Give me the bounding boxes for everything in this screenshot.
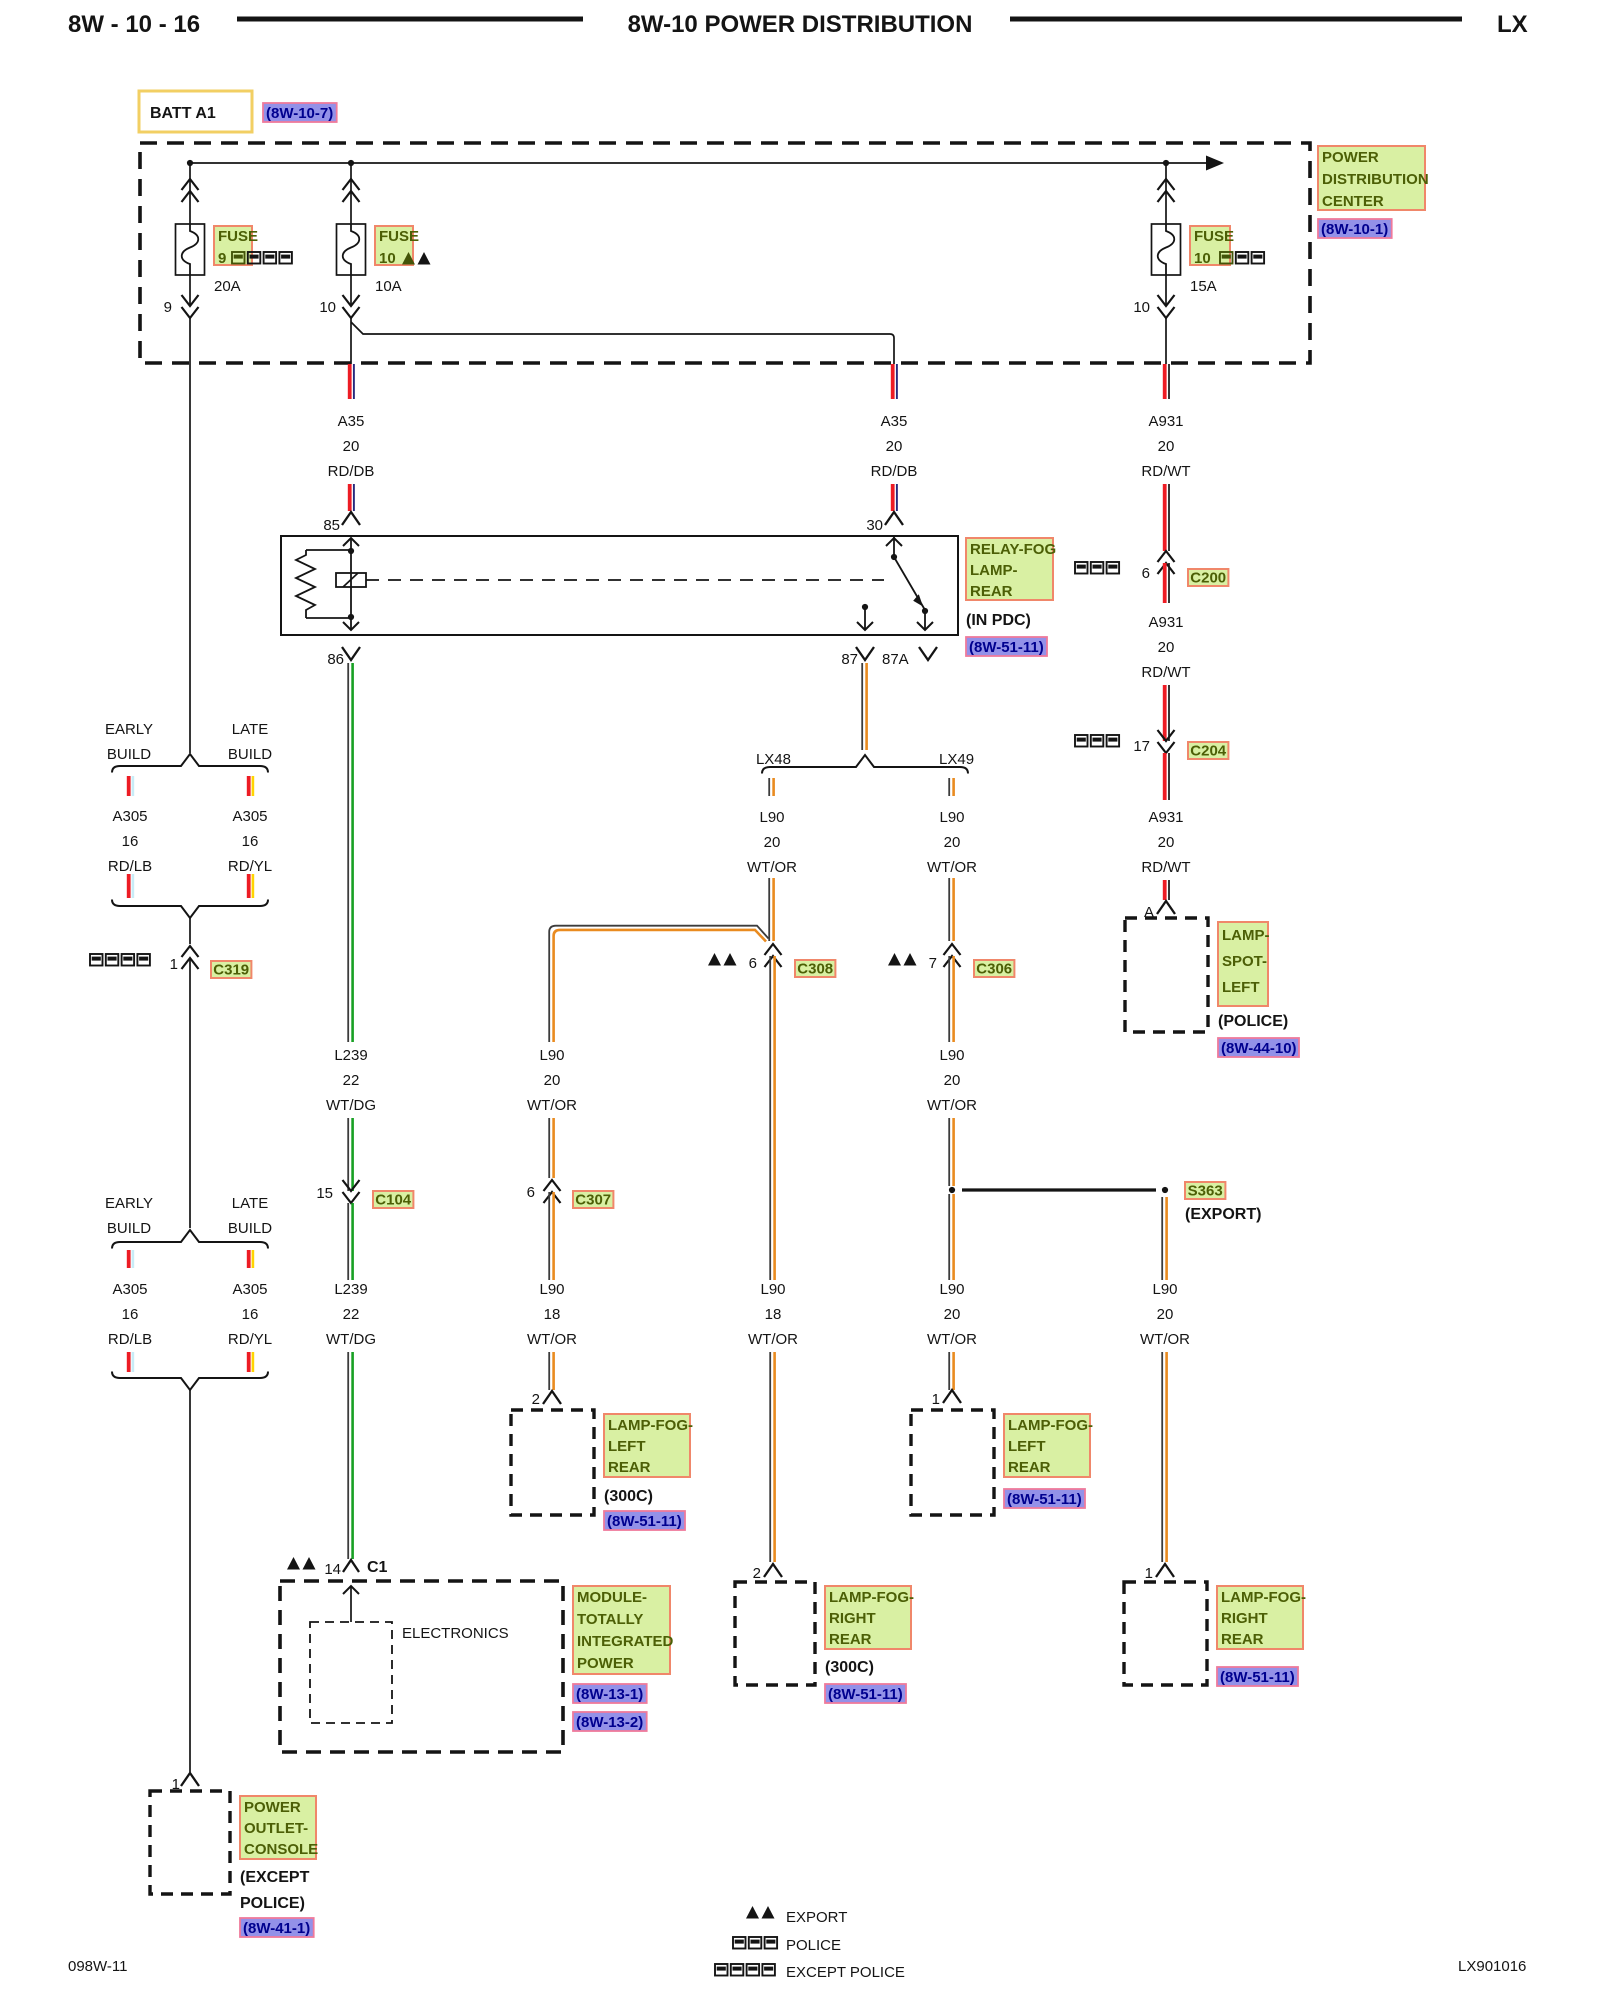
svg-text:8W - 10 - 16: 8W - 10 - 16	[68, 11, 200, 38]
svg-text:EARLY: EARLY	[105, 721, 153, 738]
svg-text:RD/YL: RD/YL	[228, 1331, 272, 1348]
svg-text:L90: L90	[939, 1281, 964, 1298]
svg-text:A305: A305	[112, 808, 147, 825]
svg-text:(8W-51-11): (8W-51-11)	[1007, 1491, 1082, 1508]
svg-text:POLICE): POLICE)	[240, 1895, 305, 1912]
svg-text:C204: C204	[1190, 743, 1227, 760]
svg-text:(8W-41-1): (8W-41-1)	[243, 1920, 310, 1937]
svg-text:WT/OR: WT/OR	[748, 1331, 798, 1348]
svg-text:C1: C1	[367, 1559, 388, 1576]
svg-text:RIGHT: RIGHT	[1221, 1610, 1268, 1627]
svg-text:(8W-51-11): (8W-51-11)	[969, 639, 1044, 656]
svg-text:C308: C308	[797, 961, 833, 978]
svg-text:22: 22	[343, 1306, 360, 1323]
svg-text:LAMP-FOG-: LAMP-FOG-	[829, 1589, 914, 1606]
svg-text:L90: L90	[1152, 1281, 1177, 1298]
svg-text:(EXCEPT: (EXCEPT	[240, 1869, 310, 1886]
svg-text:BUILD: BUILD	[107, 746, 151, 763]
svg-text:LEFT: LEFT	[608, 1438, 646, 1455]
svg-text:WT/OR: WT/OR	[927, 859, 977, 876]
svg-text:LX48: LX48	[756, 751, 791, 768]
svg-text:BUILD: BUILD	[228, 1220, 272, 1237]
svg-text:A931: A931	[1148, 809, 1183, 826]
svg-text:BUILD: BUILD	[228, 746, 272, 763]
svg-text:(8W-51-11): (8W-51-11)	[607, 1513, 682, 1530]
svg-text:1: 1	[932, 1391, 940, 1408]
svg-text:30: 30	[866, 517, 883, 534]
svg-text:15: 15	[316, 1185, 333, 1202]
svg-text:LAMP-FOG-: LAMP-FOG-	[1008, 1417, 1093, 1434]
svg-text:FUSE: FUSE	[379, 228, 419, 245]
svg-text:C307: C307	[575, 1192, 611, 1209]
svg-text:TOTALLY: TOTALLY	[577, 1611, 643, 1628]
svg-text:RD/DB: RD/DB	[871, 463, 918, 480]
svg-text:LAMP-: LAMP-	[970, 562, 1018, 579]
svg-text:6: 6	[527, 1184, 535, 1201]
svg-text:S363: S363	[1188, 1183, 1223, 1200]
svg-text:18: 18	[544, 1306, 561, 1323]
svg-text:LAMP-: LAMP-	[1222, 927, 1270, 944]
svg-text:RD/WT: RD/WT	[1141, 463, 1190, 480]
svg-text:LX: LX	[1497, 11, 1528, 38]
svg-text:20: 20	[544, 1072, 561, 1089]
svg-text:10: 10	[1133, 299, 1150, 316]
svg-text:OUTLET-: OUTLET-	[244, 1820, 308, 1837]
svg-text:(8W-10-1): (8W-10-1)	[1321, 221, 1388, 238]
svg-text:RELAY-FOG: RELAY-FOG	[970, 541, 1056, 558]
svg-text:8W-10 POWER DISTRIBUTION: 8W-10 POWER DISTRIBUTION	[628, 11, 973, 38]
svg-text:LX49: LX49	[939, 751, 974, 768]
svg-text:(EXPORT): (EXPORT)	[1185, 1206, 1261, 1223]
svg-text:(8W-51-11): (8W-51-11)	[1220, 1669, 1295, 1686]
svg-text:WT/OR: WT/OR	[747, 859, 797, 876]
svg-text:SPOT-: SPOT-	[1222, 953, 1267, 970]
svg-text:(8W-10-7): (8W-10-7)	[266, 105, 333, 122]
svg-text:18: 18	[765, 1306, 782, 1323]
svg-text:WT/OR: WT/OR	[527, 1097, 577, 1114]
svg-text:LAMP-FOG-: LAMP-FOG-	[1221, 1589, 1306, 1606]
svg-text:(300C): (300C)	[604, 1488, 653, 1505]
svg-text:WT/OR: WT/OR	[927, 1331, 977, 1348]
svg-text:6: 6	[749, 955, 757, 972]
svg-text:POLICE: POLICE	[786, 1937, 841, 1954]
svg-text:(300C): (300C)	[825, 1659, 874, 1676]
svg-text:C200: C200	[1190, 570, 1226, 587]
svg-text:10A: 10A	[375, 278, 402, 295]
svg-text:A35: A35	[881, 413, 908, 430]
svg-text:22: 22	[343, 1072, 360, 1089]
svg-text:86: 86	[327, 651, 344, 668]
svg-text:17: 17	[1133, 738, 1150, 755]
svg-text:LATE: LATE	[232, 721, 268, 738]
svg-text:16: 16	[122, 1306, 139, 1323]
svg-text:CONSOLE: CONSOLE	[244, 1841, 318, 1858]
svg-text:RD/DB: RD/DB	[328, 463, 375, 480]
svg-text:2: 2	[532, 1391, 540, 1408]
svg-text:REAR: REAR	[1008, 1459, 1051, 1476]
svg-text:A305: A305	[232, 1281, 267, 1298]
svg-text:A931: A931	[1148, 413, 1183, 430]
svg-text:LATE: LATE	[232, 1195, 268, 1212]
svg-text:(8W-51-11): (8W-51-11)	[828, 1686, 903, 1703]
svg-text:FUSE: FUSE	[218, 228, 258, 245]
svg-text:LEFT: LEFT	[1008, 1438, 1046, 1455]
svg-text:RD/WT: RD/WT	[1141, 859, 1190, 876]
svg-text:20: 20	[944, 1072, 961, 1089]
svg-text:WT/DG: WT/DG	[326, 1097, 376, 1114]
svg-text:INTEGRATED: INTEGRATED	[577, 1633, 674, 1650]
svg-text:10: 10	[1194, 250, 1211, 267]
svg-text:87: 87	[841, 651, 858, 668]
svg-text:L90: L90	[760, 1281, 785, 1298]
svg-text:L239: L239	[334, 1281, 367, 1298]
svg-text:BUILD: BUILD	[107, 1220, 151, 1237]
svg-text:(8W-13-2): (8W-13-2)	[576, 1714, 643, 1731]
svg-text:(POLICE): (POLICE)	[1218, 1013, 1288, 1030]
svg-text:EXCEPT POLICE: EXCEPT POLICE	[786, 1964, 905, 1981]
svg-text:(IN PDC): (IN PDC)	[966, 612, 1031, 629]
svg-text:POWER: POWER	[577, 1655, 634, 1672]
svg-text:6: 6	[1142, 565, 1150, 582]
svg-text:C319: C319	[213, 962, 249, 979]
svg-text:A35: A35	[338, 413, 365, 430]
svg-text:LX901016: LX901016	[1458, 1958, 1526, 1975]
svg-text:16: 16	[242, 833, 259, 850]
svg-text:WT/OR: WT/OR	[927, 1097, 977, 1114]
svg-text:85: 85	[323, 517, 340, 534]
svg-text:16: 16	[242, 1306, 259, 1323]
svg-text:RD/YL: RD/YL	[228, 858, 272, 875]
svg-text:ELECTRONICS: ELECTRONICS	[402, 1625, 509, 1642]
svg-text:L90: L90	[759, 809, 784, 826]
svg-text:A931: A931	[1148, 614, 1183, 631]
svg-text:20: 20	[1158, 834, 1175, 851]
svg-text:EARLY: EARLY	[105, 1195, 153, 1212]
svg-text:WT/OR: WT/OR	[527, 1331, 577, 1348]
svg-text:20A: 20A	[214, 278, 241, 295]
svg-text:1: 1	[170, 956, 178, 973]
svg-text:L90: L90	[539, 1281, 564, 1298]
svg-text:L90: L90	[539, 1047, 564, 1064]
svg-text:10: 10	[379, 250, 396, 267]
svg-text:20: 20	[1157, 1306, 1174, 1323]
svg-text:A305: A305	[112, 1281, 147, 1298]
svg-text:BATT A1: BATT A1	[150, 105, 216, 122]
svg-text:POWER: POWER	[244, 1799, 301, 1816]
svg-text:(8W-44-10): (8W-44-10)	[1221, 1040, 1297, 1057]
svg-text:20: 20	[944, 834, 961, 851]
svg-text:10: 10	[319, 299, 336, 316]
svg-text:14: 14	[324, 1561, 341, 1578]
svg-text:WT/OR: WT/OR	[1140, 1331, 1190, 1348]
svg-text:RIGHT: RIGHT	[829, 1610, 876, 1627]
svg-text:20: 20	[1158, 438, 1175, 455]
svg-text:RD/LB: RD/LB	[108, 1331, 152, 1348]
svg-text:20: 20	[764, 834, 781, 851]
svg-text:9: 9	[218, 250, 226, 267]
svg-text:C306: C306	[976, 961, 1012, 978]
svg-text:20: 20	[1158, 639, 1175, 656]
svg-text:MODULE-: MODULE-	[577, 1589, 647, 1606]
svg-text:20: 20	[343, 438, 360, 455]
svg-text:A305: A305	[232, 808, 267, 825]
svg-text:EXPORT: EXPORT	[786, 1909, 847, 1926]
svg-text:C104: C104	[375, 1192, 412, 1209]
svg-text:DISTRIBUTION: DISTRIBUTION	[1322, 171, 1429, 188]
svg-text:L90: L90	[939, 1047, 964, 1064]
svg-text:9: 9	[164, 299, 172, 316]
svg-text:RD/WT: RD/WT	[1141, 664, 1190, 681]
svg-text:POWER: POWER	[1322, 149, 1379, 166]
svg-text:L239: L239	[334, 1047, 367, 1064]
svg-text:FUSE: FUSE	[1194, 228, 1234, 245]
svg-text:2: 2	[753, 1565, 761, 1582]
svg-text:LEFT: LEFT	[1222, 979, 1260, 996]
svg-text:20: 20	[944, 1306, 961, 1323]
svg-text:87A: 87A	[882, 651, 909, 668]
svg-text:REAR: REAR	[829, 1631, 872, 1648]
svg-text:L90: L90	[939, 809, 964, 826]
svg-text:REAR: REAR	[970, 583, 1013, 600]
svg-text:15A: 15A	[1190, 278, 1217, 295]
svg-text:20: 20	[886, 438, 903, 455]
svg-text:CENTER: CENTER	[1322, 193, 1384, 210]
svg-text:REAR: REAR	[1221, 1631, 1264, 1648]
svg-text:098W-11: 098W-11	[68, 1958, 127, 1975]
svg-text:LAMP-FOG-: LAMP-FOG-	[608, 1417, 693, 1434]
svg-text:16: 16	[122, 833, 139, 850]
svg-text:1: 1	[1145, 1565, 1153, 1582]
svg-text:(8W-13-1): (8W-13-1)	[576, 1686, 643, 1703]
svg-text:WT/DG: WT/DG	[326, 1331, 376, 1348]
svg-text:7: 7	[929, 955, 937, 972]
svg-text:RD/LB: RD/LB	[108, 858, 152, 875]
svg-text:REAR: REAR	[608, 1459, 651, 1476]
